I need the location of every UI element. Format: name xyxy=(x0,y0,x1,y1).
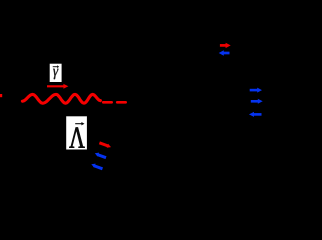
right-side blue arrow 3 (left) xyxy=(249,112,262,117)
Lambda spin arrow blue 1 (down-left) xyxy=(95,153,106,158)
photon dashed continuation segment 2 xyxy=(117,101,126,104)
Lambda spin arrow blue 2 (down-left) xyxy=(91,164,102,169)
right-side blue arrow 1 (right) xyxy=(250,88,262,93)
photon dashed continuation xyxy=(103,101,112,104)
right-side blue arrow 2 (right) xyxy=(251,99,263,104)
top-right red arrow (right) xyxy=(220,43,231,48)
red dot at left edge xyxy=(0,94,2,97)
top-right blue arrow (left) xyxy=(219,50,230,55)
gamma beam arrow xyxy=(47,84,68,89)
Lambda spin arrow red (down-right) xyxy=(99,143,111,148)
gamma label box xyxy=(50,64,62,82)
Lambda label box xyxy=(66,116,87,149)
photon wavy line xyxy=(22,94,100,103)
